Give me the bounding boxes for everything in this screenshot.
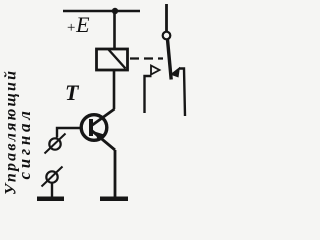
svg-text:сигнал: сигнал — [15, 107, 34, 179]
svg-text:T: T — [65, 80, 80, 105]
